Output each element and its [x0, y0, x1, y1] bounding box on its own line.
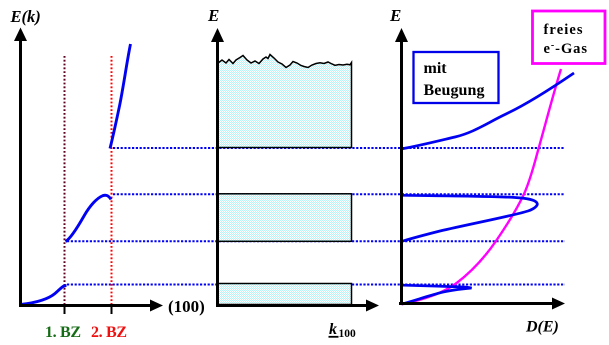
D(E) curve band 2 lobe [403, 195, 537, 241]
tick 2. BZ [111, 306, 113, 314]
band box top (wavy upper edge) [218, 55, 352, 148]
right panel x-axis arrowhead [552, 298, 565, 310]
BZ boundary 1 dotted line (maroon) [64, 56, 66, 304]
D(E) curve band 3 rising [402, 73, 574, 149]
left panel x-axis [19, 304, 151, 307]
band box bottom [218, 284, 352, 305]
svg-text:k: k [329, 321, 337, 338]
E(k) curve branch 1 [21, 286, 67, 305]
k underline [329, 336, 339, 338]
middle panel y-axis arrowhead [211, 28, 224, 42]
E(k) curve branch 2 [66, 195, 112, 241]
free electron gas parabola (magenta) [402, 69, 562, 304]
E(k) curve branch 3 [110, 44, 131, 149]
svg-text:Beugung: Beugung [424, 82, 485, 99]
band box middle [218, 194, 352, 242]
svg-text:1. BZ: 1. BZ [45, 324, 81, 341]
left panel x-axis arrowhead [150, 300, 163, 312]
tick 1. BZ [64, 306, 66, 314]
svg-text:E(k): E(k) [10, 7, 41, 26]
svg-text:(100): (100) [168, 297, 205, 316]
middle panel x-axis [216, 304, 367, 307]
svg-text:E: E [389, 6, 401, 25]
svg-text:mit: mit [424, 60, 448, 77]
dotted energy line 1 (top band bottom) [113, 147, 565, 149]
svg-text:D(E): D(E) [525, 319, 559, 336]
D(E) curve band 1 tongue [402, 285, 472, 304]
svg-text:100: 100 [339, 328, 357, 340]
svg-text:2. BZ: 2. BZ [91, 324, 127, 341]
middle panel y-axis [216, 36, 219, 305]
dotted energy line 2 (band 2 top) [113, 193, 565, 195]
left panel y-axis arrowhead [14, 28, 27, 42]
left panel y-axis [19, 34, 22, 307]
right panel y-axis arrowhead [395, 28, 408, 42]
right panel y-axis [400, 36, 403, 305]
box freies e-Gas [533, 11, 606, 64]
right panel x-axis [399, 302, 553, 305]
dotted energy line 3 (band 2 bottom) [67, 240, 565, 242]
svg-text:E: E [207, 6, 219, 25]
middle panel x-axis arrowhead [366, 300, 379, 312]
dotted energy line 4 (band 1 top) [67, 284, 565, 286]
box mit Beugung [414, 52, 499, 103]
BZ boundary 2 dotted line (red) [111, 56, 113, 304]
